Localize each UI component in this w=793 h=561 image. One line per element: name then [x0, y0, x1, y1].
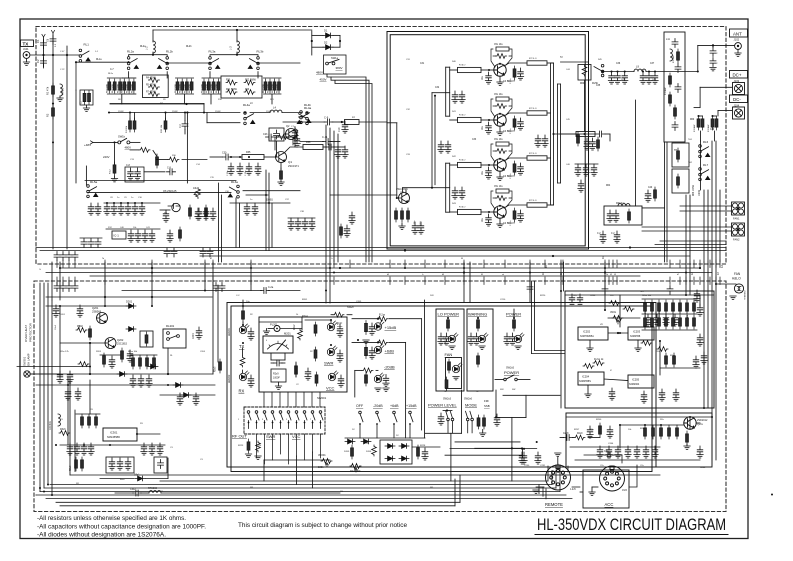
PA output rail 2 [553, 63, 555, 205]
svg-text:R2xx 10k: R2xx 10k [128, 351, 138, 353]
svg-text:SSB: SSB [484, 404, 490, 408]
wire R35 Q1 [264, 156, 275, 158]
din connector J205 REMOTE [546, 465, 571, 490]
boundary cap r2 [602, 286, 608, 295]
wire stage4 base [481, 211, 495, 213]
bottom inner v [459, 475, 461, 502]
wire stage1 in [450, 69, 458, 71]
svg-text:R 3LO: R 3LO [459, 160, 466, 162]
bank fall1 [121, 94, 123, 104]
wire stage2 in [450, 119, 458, 121]
IC section frame [565, 291, 714, 408]
svg-text:PL201: PL201 [270, 323, 278, 327]
wire R to PA [359, 121, 387, 123]
svg-text:1000F: 1000F [273, 377, 280, 380]
pin tick extra 445 [444, 260, 446, 268]
bank4 bottom bus [264, 93, 282, 95]
wire rx row [88, 191, 231, 193]
pin tick top 686 [685, 260, 687, 268]
feedback zz stage1 [496, 54, 507, 59]
wire stage1 base [481, 69, 495, 71]
pin tick extra 484 [483, 260, 485, 268]
din gnd remote [533, 490, 539, 493]
feed x105 [104, 262, 106, 306]
svg-text:+6dB: +6dB [390, 404, 399, 408]
wire vright1 [700, 141, 702, 190]
resistor R255 [660, 425, 663, 439]
boundary cap 222 [219, 283, 225, 292]
resistor R38 [278, 79, 281, 93]
left harness v1 [39, 283, 41, 492]
wire RFC3 up [294, 128, 296, 147]
divider box1 [143, 75, 169, 98]
PA feed top [432, 92, 446, 94]
resistor R24 [203, 79, 206, 93]
svg-text:NJM4558D: NJM4558D [107, 435, 120, 439]
wire ic out [137, 433, 160, 435]
surge box [80, 90, 93, 105]
svg-text:R7 1LO: R7 1LO [529, 200, 537, 202]
svg-text:R7 1LO: R7 1LO [529, 153, 537, 155]
wire psec v [619, 425, 621, 448]
pin tick top 152 [151, 260, 153, 268]
resistor R280 [609, 301, 620, 306]
svg-text:SW1a: SW1a [331, 56, 339, 60]
svg-text:FAN: FAN [445, 352, 453, 357]
svg-text:12: 12 [720, 264, 724, 268]
wire stage2 base [481, 119, 495, 121]
cap col 586 [583, 164, 589, 176]
svg-text:R64 100W: R64 100W [693, 184, 695, 196]
cap box C8 [125, 167, 144, 182]
toggle switch OFF [359, 411, 363, 438]
pin tick top 670 [669, 260, 671, 268]
resistor R29 [133, 118, 136, 132]
resistor R282 [665, 353, 668, 367]
pin tick bottom 251 [250, 277, 252, 285]
svg-text:WARNING: WARNING [468, 312, 487, 317]
svg-text:LED202: LED202 [229, 374, 231, 383]
gap wire 3 [90, 275, 640, 277]
rotary contact 3 [263, 411, 267, 429]
harness wire 1 [160, 480, 548, 482]
diode D1 [323, 33, 333, 38]
inductor RFC302 [149, 491, 161, 493]
wire Q1 collector out [285, 147, 303, 152]
cap lpf 611.5 [608, 72, 614, 84]
svg-text:R60: R60 [690, 119, 695, 121]
pin tick top 251 [250, 260, 252, 268]
svg-text:RFC301: RFC301 [49, 420, 52, 430]
svg-text:C-8: C-8 [126, 164, 131, 167]
svg-text:C230: C230 [590, 295, 596, 297]
capacitor C22 [246, 163, 252, 175]
switch SW1a [326, 60, 339, 65]
svg-text:RL3a: RL3a [209, 50, 216, 54]
capacitor C223 [504, 333, 510, 345]
toggle switch +15dB [409, 411, 413, 438]
filter res4 [674, 105, 677, 119]
rotary contact 7 [295, 411, 299, 429]
wire rx up [242, 348, 244, 356]
boundary cap top 75 [72, 252, 78, 261]
svg-text:C210: C210 [500, 299, 506, 301]
base cap stage2 [485, 122, 491, 134]
rotary contact 1 [247, 411, 251, 429]
inductor L2 tap [153, 41, 155, 53]
diode D203 [148, 364, 158, 369]
wire ic sect v2 [659, 341, 661, 375]
transistor Q203 [684, 417, 696, 429]
pin tick bottom 334 [333, 277, 335, 285]
wire acc link [580, 491, 583, 493]
relay RL5b [594, 64, 604, 76]
svg-text:J101: J101 [23, 47, 29, 51]
svg-text:R 100k: R 100k [126, 125, 128, 133]
capacitor C272 [146, 375, 152, 387]
emitter stage1 [499, 76, 501, 82]
capacitor C301 [67, 443, 73, 455]
thermal sensor [734, 284, 743, 293]
pin tick bottom 105 [104, 277, 106, 285]
PA mid cap F2 [445, 141, 451, 153]
ground below J101 [23, 62, 29, 65]
svg-text:R64: R64 [606, 185, 611, 187]
wire diode rail [311, 31, 313, 55]
boundary cap r3 [667, 286, 673, 295]
svg-text:SWR: SWR [324, 361, 333, 366]
switch sw203 pole 452.5 [450, 411, 454, 433]
bank1b top bus [122, 77, 136, 79]
svg-text:-20dB: -20dB [373, 404, 383, 408]
svg-text:R7 470W: R7 470W [146, 92, 156, 94]
capacitor C276 [109, 356, 115, 368]
svg-text:R8 150W: R8 150W [211, 84, 213, 93]
resistor R271 [651, 315, 654, 329]
ground surge [83, 108, 89, 111]
resistor R270 [644, 315, 647, 329]
transistor Q11 2SC2879 [494, 206, 506, 218]
wire q203 c [689, 417, 691, 430]
inductor L4 [270, 110, 282, 112]
filter cap5 [672, 122, 678, 131]
rotary contact 6 [287, 411, 291, 429]
PA feed bottom [432, 187, 446, 189]
harness wire 5 [36, 494, 566, 496]
svg-text:R4 470W: R4 470W [146, 78, 156, 80]
pin tick bottom 213 [212, 277, 214, 285]
ic IC1 box [112, 231, 126, 239]
rotary contact 2 [255, 411, 259, 429]
svg-text:SW: SW [512, 389, 515, 391]
wire into Q1 [210, 156, 223, 158]
bank drop2 [166, 72, 168, 78]
feed v5 [604, 262, 606, 310]
wire 493 [115, 492, 134, 494]
capacitor C280 [659, 389, 665, 401]
pin tick top 334 [333, 260, 335, 268]
wire rx row2 [243, 190, 300, 192]
output resistor stage3 [527, 156, 547, 160]
sw203 top join [443, 410, 452, 412]
rotary drop R223 [247, 439, 250, 453]
res box top [576, 132, 595, 137]
capacitor C42 [302, 218, 308, 230]
svg-text:TH: TH [674, 149, 677, 152]
capacitor C54 [167, 230, 173, 242]
res mid Q7 area [340, 224, 343, 238]
pin tick bottom 530 [529, 277, 531, 285]
gap wire 2 [46, 272, 712, 274]
harness stub r3 [445, 454, 522, 456]
meter panel box [259, 317, 347, 392]
svg-text:C 1Fu: C 1Fu [227, 169, 229, 176]
svg-text:C 1Fu: C 1Fu [510, 219, 512, 226]
svg-text:C5x 1Fu: C5x 1Fu [494, 94, 503, 96]
capacitor C203 [127, 350, 133, 362]
gnd att1 [363, 340, 369, 343]
capacitor C35 [195, 208, 201, 220]
resistor R211 [240, 356, 245, 367]
ground J102 [735, 53, 741, 56]
cap right1 [645, 190, 651, 202]
bank1a top bus [107, 77, 122, 79]
wire sensor [716, 283, 736, 285]
wire ic h2 [660, 367, 700, 369]
resistor R52 [407, 208, 410, 222]
feed v12 [51, 262, 53, 300]
r net bus [130, 354, 157, 356]
wire DC+ [700, 86, 732, 88]
svg-text:DC+: DC+ [733, 73, 742, 78]
svg-text:C10: C10 [338, 127, 341, 132]
rotary SW201 dashed box [244, 407, 325, 434]
svg-text:R22 560W: R22 560W [245, 80, 257, 82]
PA mid cap B [452, 187, 458, 199]
capacitor C240 [569, 294, 575, 306]
capacitor C254 [697, 304, 703, 316]
ic IC204 box [578, 372, 604, 385]
wire sw205 [517, 379, 530, 381]
svg-text:C 1Fu: C 1Fu [245, 169, 247, 176]
resistor R257 [599, 423, 602, 437]
boundary cap 216 [213, 283, 219, 292]
resistor R246 [686, 300, 689, 314]
vr box [324, 55, 347, 74]
wire bundle v1 [531, 281, 533, 354]
wire att1 [352, 318, 380, 320]
wire ic h1 [608, 317, 640, 319]
wire top bus [153, 29, 312, 31]
thermal res1 [677, 148, 680, 162]
svg-text:C204: C204 [200, 351, 206, 353]
svg-text:C2: C2 [36, 59, 40, 63]
PA enclosure outer [387, 32, 589, 250]
svg-text:R30 10k: R30 10k [161, 124, 163, 133]
capacitor C60 [196, 208, 202, 220]
diode D205 [345, 439, 355, 444]
svg-text:SW201: SW201 [317, 396, 327, 400]
wire D1 left [312, 34, 323, 36]
pin tick top 605 [604, 260, 606, 268]
svg-text:C 2: C 2 [179, 124, 182, 128]
resistor R26 [207, 79, 210, 93]
harness wire 6 [46, 498, 572, 500]
inductor L3 tap [237, 41, 239, 53]
svg-text:R220: R220 [540, 295, 546, 297]
wire vright5 [715, 141, 717, 262]
resistor R230 [447, 317, 450, 331]
resistor R233 [477, 317, 480, 331]
capacitor C58 [418, 222, 424, 234]
wire step3 [335, 81, 372, 263]
resistor R50 [395, 208, 398, 222]
capacitor C304 [88, 443, 94, 455]
capacitor C271 [138, 375, 144, 387]
resistor R308 [88, 414, 91, 428]
wire rf path rl4 [207, 122, 240, 124]
capacitor C51 [135, 230, 141, 242]
pin tick bottom 69 [68, 277, 70, 285]
fan connector FAN2 [732, 223, 745, 236]
resistor R4 470W [148, 78, 159, 83]
svg-text:R223: R223 [238, 445, 244, 447]
wire row 374 [30, 373, 213, 375]
svg-text:NJM4558: NJM4558 [630, 335, 641, 338]
feedback resistor stage3 [496, 142, 509, 146]
wire bank sub-bus [110, 103, 204, 105]
emitter res stage3 [513, 161, 516, 175]
transistor Q202 [105, 338, 116, 349]
input resistor stage2 [458, 117, 482, 122]
capacitor C219 [383, 375, 389, 387]
PA mid cap A2 [459, 91, 465, 103]
resistor R244 [672, 300, 675, 314]
feed v10 [711, 262, 713, 460]
coax jack J101 [23, 52, 30, 59]
wire stage3 out [547, 157, 551, 159]
svg-text:C36: C36 [616, 63, 621, 65]
PA rail A2 [449, 67, 451, 116]
pin tick top 716 [715, 260, 717, 268]
capacitor C11 [323, 139, 332, 145]
connector J101 TX box [21, 40, 34, 47]
RFC201 res [628, 209, 631, 223]
resistor R222 [365, 372, 368, 386]
capacitor C41 [295, 218, 301, 230]
svg-text:D201: D201 [126, 300, 133, 304]
svg-text:VR2x: VR2x [610, 311, 617, 314]
bank2 top bus [176, 77, 194, 79]
gap wire 1 [60, 267, 700, 269]
arrow x53 [51, 30, 54, 33]
PA output rail 3 [557, 84, 559, 183]
led LED204 SWR [327, 346, 337, 356]
label Q7 wire [330, 194, 397, 196]
svg-text:LED201: LED201 [229, 327, 231, 336]
feed v8 [703, 262, 705, 408]
capacitor C207 [65, 388, 71, 400]
capacitor C306 [149, 443, 155, 455]
svg-text:-All capacitors without capaci: -All capacitors without capacitance desi… [37, 523, 206, 530]
pin tick bottom 670 [669, 277, 671, 285]
emitter res stage2 [513, 116, 516, 130]
wire vfan1 [685, 195, 687, 262]
wire row 385 [36, 384, 215, 386]
trimmer R227 [350, 464, 361, 472]
wire sw1b out [130, 141, 140, 143]
bank bus lower [110, 103, 204, 105]
wire rail x67 [66, 46, 68, 249]
resistor R220 [365, 345, 368, 359]
capacitor C282 [597, 446, 603, 458]
pin tick top 63 [62, 260, 64, 268]
svg-text:RFC1: RFC1 [61, 88, 65, 95]
wire tx up [242, 300, 244, 308]
gnd ic203 [635, 348, 641, 351]
svg-text:RL2a: RL2a [108, 73, 114, 75]
resistor R5 470W [148, 85, 159, 90]
capacitor C40 [288, 218, 294, 230]
filter drop v1 [664, 142, 666, 262]
feedback zz stage2 [496, 104, 507, 109]
relay RL6 [699, 145, 710, 158]
wire vpair q1 a [265, 170, 267, 251]
wire collector stage3 [504, 158, 527, 161]
led LED202 [239, 371, 249, 381]
pin tick top 69 [68, 260, 70, 268]
wire stage4 in [450, 211, 458, 213]
pin tick bottom 561 [560, 277, 562, 285]
svg-text:C40: C40 [648, 187, 653, 189]
resistor R20 [185, 79, 188, 93]
svg-text:R257: R257 [574, 429, 580, 431]
resistor R210 [242, 308, 245, 322]
svg-text:C 1Fu: C 1Fu [510, 77, 512, 84]
wire Q7 to splitter [403, 187, 432, 189]
wire oh row [17, 366, 90, 368]
capacitor C308 [109, 458, 115, 470]
svg-text:C39: C39 [710, 129, 715, 131]
svg-text:R 100W: R 100W [673, 55, 675, 63]
pin tick top 213 [212, 260, 214, 268]
capacitor C216 [369, 323, 375, 335]
diode D202 [126, 327, 136, 332]
resistor R232 [445, 377, 448, 391]
svg-text:H&LO: H&LO [732, 277, 741, 281]
wire bus q2 [329, 128, 331, 262]
resistor R32 [264, 79, 267, 93]
thermal box1 [672, 143, 689, 167]
PA mid cap A [452, 91, 458, 103]
Q1 emitter [280, 163, 282, 170]
pin tick extra 609 [608, 260, 610, 268]
control loop line C [70, 474, 660, 476]
filter cap3 [675, 84, 681, 93]
capacitor C36 [244, 203, 250, 215]
svg-text:RL1a: RL1a [96, 59, 102, 61]
capacitor C3x0 [88, 203, 94, 215]
wire RL4 row [283, 121, 325, 123]
resistor R260 [132, 355, 135, 369]
svg-text:FAN: FAN [734, 272, 741, 276]
DC filter R62 [697, 116, 700, 130]
wire lamp [30, 373, 60, 375]
capacitor C224 [438, 413, 444, 425]
output resistor stage4 [527, 203, 547, 207]
svg-text:+48V: +48V [84, 143, 91, 147]
capacitor C312 [133, 490, 142, 496]
